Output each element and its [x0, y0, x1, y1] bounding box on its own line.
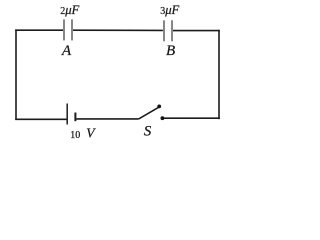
switch blade [139, 107, 159, 119]
switch S contact dot bottom [161, 116, 165, 120]
svg-text:A: A [61, 42, 72, 59]
svg-text:V: V [86, 126, 96, 141]
capacitor B [163, 20, 173, 41]
svg-text:2μF: 2μF [60, 3, 79, 17]
svg-text:B: B [166, 43, 175, 59]
wire left side [15, 29, 17, 120]
wire top-right segment [173, 30, 220, 32]
capacitor A [63, 19, 73, 40]
wire bottom-left segment [15, 118, 66, 120]
wire right side [218, 30, 220, 119]
wire top-left segment [15, 29, 63, 31]
wire battery to switch [76, 118, 138, 120]
svg-text:S: S [144, 124, 152, 140]
svg-text:3μF: 3μF [160, 3, 179, 17]
battery V1 [67, 104, 75, 125]
switch S contact dot top [157, 105, 161, 109]
wire bottom-right segment [163, 117, 219, 119]
svg-text:10: 10 [70, 130, 80, 141]
wire top-middle segment [73, 29, 163, 31]
